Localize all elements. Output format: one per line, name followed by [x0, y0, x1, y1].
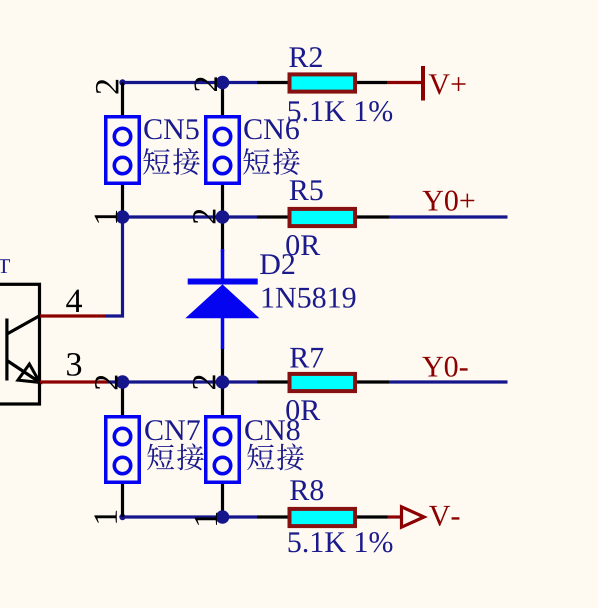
phototransistor collector: [7, 316, 40, 335]
CN5 pin 2 circle: [114, 128, 130, 144]
CN6 pin1 lead: [221, 184, 224, 217]
connector CN7 body: [106, 417, 140, 483]
wire elbow pin4 up to row B: [106, 217, 123, 316]
V+ wire (red): [387, 81, 422, 84]
designator CN6: [244, 119, 299, 139]
resistor R8 body: [290, 509, 356, 526]
designator CN5: [144, 119, 198, 139]
value 0R (R7): [286, 400, 320, 420]
value 5.1K 1% (R2): [288, 101, 392, 121]
junction row E col2: [216, 510, 230, 524]
designator D2: [260, 254, 294, 274]
Y0+ net label: [423, 191, 475, 211]
resistor R2 body: [290, 74, 356, 91]
connector CN8 body: [206, 417, 240, 483]
R2 right lead: [356, 81, 387, 84]
pin 4 number: [66, 290, 82, 312]
CN8 pin number 2: [193, 375, 216, 389]
R8 right lead: [356, 515, 388, 518]
CN6 pin 1 circle: [214, 157, 230, 173]
diode D2 cathode bar: [188, 279, 258, 285]
pin 4 wire (red): [40, 314, 106, 317]
CN7 pin1 lead: [121, 483, 124, 517]
designator R7: [290, 348, 323, 368]
value 0R (R5): [286, 235, 320, 255]
CN5 pin number 2: [96, 80, 119, 94]
designator R8: [290, 480, 323, 500]
value 1N5819: [263, 288, 356, 308]
wire row E: [123, 515, 258, 518]
CN6 pin 2 circle: [214, 128, 230, 144]
Y0- net label: [422, 357, 467, 377]
wire row B right (Y0+): [389, 215, 508, 218]
CN5 pin2 lead: [121, 83, 124, 117]
R7 left lead: [257, 380, 289, 383]
CN8 pin number 1: [195, 513, 217, 525]
phototransistor emitter arrow: [18, 364, 40, 382]
value 短接 (CN6): [243, 148, 300, 175]
wire stub pin3 to node: [108, 380, 123, 383]
R8 left lead: [257, 515, 289, 518]
wire row A: [123, 81, 258, 84]
phototransistor base bar: [5, 319, 8, 381]
designator CN8: [245, 420, 299, 440]
connector CN6 body: [206, 117, 240, 184]
junction row A col2: [216, 76, 230, 90]
value 短接 (CN5): [143, 148, 200, 175]
V+ label: [429, 74, 466, 94]
CN8 pin 1 circle: [214, 457, 230, 473]
wire row E corner cap: [119, 514, 125, 520]
wire row D right (Y0-): [389, 380, 508, 383]
junction row B col2: [216, 210, 230, 224]
junction row D col1: [116, 375, 130, 389]
R5 right lead: [356, 215, 389, 218]
value 短接 (CN8): [247, 443, 304, 470]
CN7 pin number 2: [95, 376, 118, 390]
resistor R5 body: [290, 209, 356, 226]
R2 left lead: [257, 81, 289, 84]
V- wire (red): [388, 515, 402, 518]
CN5 pin 1 circle: [114, 157, 130, 173]
diode D2 upper blue lead: [221, 249, 225, 279]
value 5.1K 1% (R8): [289, 532, 393, 552]
junction row D col2: [216, 375, 230, 389]
V- port arrow: [402, 507, 425, 527]
R7 right lead: [356, 380, 389, 383]
R5 left lead: [257, 215, 289, 218]
CN7 pin number 1: [94, 511, 116, 523]
CN8 pin2 lead: [221, 382, 224, 416]
resistor R7 body: [290, 374, 356, 391]
wire row B: [123, 215, 258, 218]
D2 cathode pin number 2: [193, 210, 216, 224]
diode D2 lower pin lead: [221, 347, 224, 382]
optocoupler body: [0, 284, 40, 404]
pin 3 number: [67, 353, 81, 376]
wire row D: [123, 380, 258, 383]
diode D2 upper pin lead: [221, 217, 224, 252]
CN6 pin2 lead: [221, 83, 224, 117]
wire row A start cap: [119, 79, 125, 85]
CN6 pin number 2: [195, 77, 218, 91]
V+ port bar: [421, 66, 425, 101]
diode D2 triangle: [185, 284, 259, 318]
CN5 pin number 1: [95, 211, 117, 223]
value 短接 (CN7): [147, 443, 204, 470]
CN7 pin 2 circle: [114, 428, 130, 444]
designator R2: [289, 47, 322, 67]
connector CN5 body: [106, 117, 140, 184]
phototransistor emitter: [7, 361, 40, 383]
pin 3 wire (red): [40, 380, 108, 383]
CN8 pin1 lead: [221, 483, 224, 517]
CN7 pin2 lead: [121, 382, 124, 416]
diode D2 lower blue lead: [221, 318, 225, 349]
designator R5: [290, 180, 323, 200]
V- label: [429, 506, 459, 526]
CN8 pin 2 circle: [214, 428, 230, 444]
optocoupler partial label T: [0, 259, 10, 273]
CN5 pin1 lead: [121, 184, 124, 217]
junction row B col1: [116, 210, 130, 224]
designator CN7: [145, 420, 200, 440]
CN7 pin 1 circle: [114, 457, 130, 473]
